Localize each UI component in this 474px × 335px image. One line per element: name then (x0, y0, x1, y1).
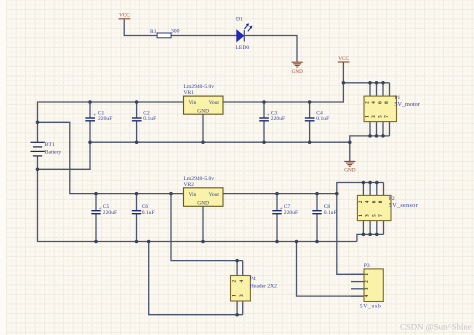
node C2 bottom (135, 140, 139, 144)
capacitor C3 (259, 111, 285, 122)
wire P1 top feed (343, 82, 389, 84)
node VR1 gnd (201, 140, 205, 144)
svg-text:4: 4 (364, 294, 370, 297)
node P3 gnd branch (295, 240, 299, 244)
node C5 top (94, 192, 98, 196)
svg-text:C7: C7 (284, 204, 291, 210)
node P4 pin2 (235, 259, 239, 263)
svg-text:4: 4 (365, 200, 371, 203)
node P1 pin1 (368, 134, 372, 138)
battery BT1 (31, 142, 62, 156)
svg-text:220uF: 220uF (271, 116, 285, 122)
wire P2 pin1 stub (362, 221, 364, 235)
op-amp VR2 regulator Lm2940 (184, 176, 224, 206)
svg-text:5: 5 (378, 115, 384, 118)
node C8 top (315, 192, 319, 196)
wire P2 pin2 stub (362, 183, 364, 196)
svg-text:8: 8 (384, 101, 390, 104)
LED D1 (236, 17, 253, 51)
wire top rail battery+ to VR1 Vin (38, 102, 184, 143)
svg-text:3: 3 (365, 214, 371, 217)
svg-text:220uF: 220uF (98, 116, 112, 122)
wire D1 to GND1 (245, 36, 298, 62)
wire 5V usb drop (337, 194, 364, 275)
svg-text:Header 2X2: Header 2X2 (250, 283, 277, 289)
svg-text:8: 8 (378, 200, 384, 203)
node P2 pin4 (368, 181, 372, 185)
svg-text:3: 3 (364, 287, 370, 290)
node C6 top (135, 192, 139, 196)
node P1 pin2 (368, 81, 372, 85)
node C3 top (262, 100, 266, 104)
svg-text:2: 2 (365, 101, 371, 104)
node C1 bottom (88, 140, 92, 144)
wire C3 leads (263, 102, 265, 142)
svg-text:220uF: 220uF (103, 210, 117, 216)
wire P2 bottom to gnd rail (357, 234, 384, 241)
svg-text:VCC: VCC (338, 56, 349, 62)
svg-text:GND: GND (197, 108, 209, 114)
svg-text:GND: GND (344, 167, 355, 173)
wire P3 pin1 stub (351, 273, 364, 275)
wire R1 to D1 (171, 35, 236, 37)
svg-text:7: 7 (384, 115, 390, 118)
node P1 pin4 (375, 81, 379, 85)
power VCC2 (338, 56, 350, 62)
svg-text:C8: C8 (324, 204, 331, 210)
svg-text:+: + (267, 112, 270, 118)
node C7 top (275, 192, 279, 196)
node P1 pin3 (375, 134, 379, 138)
node P1 pin6 (381, 81, 385, 85)
svg-text:VR1: VR1 (184, 90, 195, 96)
wire P4 pin3 stub (242, 301, 244, 315)
wire VR1 Vout rail (223, 83, 343, 102)
svg-text:4: 4 (371, 101, 377, 104)
svg-text:5V_motor: 5V_motor (394, 101, 419, 108)
svg-text:0.1uF: 0.1uF (316, 116, 329, 122)
svg-text:P3: P3 (364, 263, 370, 269)
svg-text:Battery: Battery (45, 150, 62, 156)
capacitor C8 (312, 204, 336, 216)
svg-text:1: 1 (364, 273, 370, 276)
svg-text:Vin: Vin (189, 100, 197, 106)
node P2 pin2 (362, 181, 366, 185)
svg-text:0.1uF: 0.1uF (143, 116, 156, 122)
wire VR1 GND pin (202, 114, 204, 142)
svg-text:1: 1 (358, 214, 364, 217)
node C8 bottom (315, 240, 319, 244)
wire gnd rail upper section (90, 141, 350, 143)
svg-text:1: 1 (231, 294, 237, 297)
svg-text:+: + (93, 112, 96, 118)
wire VCC2 drop (342, 62, 344, 83)
node P2 pin6 (375, 181, 379, 185)
capacitor C2 (132, 111, 156, 122)
wire P2 pin6 stub (376, 183, 378, 196)
svg-text:7: 7 (378, 214, 384, 217)
svg-text:1: 1 (365, 115, 371, 118)
node P4 branch (169, 192, 173, 196)
capacitor C5 (91, 204, 117, 216)
wire C1 leads (89, 102, 91, 142)
svg-text:+: + (99, 206, 102, 212)
wire battery- down to gnd rail (38, 169, 357, 241)
wire P1 pin3 stub (376, 122, 378, 136)
svg-text:3: 3 (239, 294, 245, 297)
node VCC2 join (342, 81, 346, 85)
svg-text:Lm2940-5.0v: Lm2940-5.0v (184, 176, 215, 182)
node battery minus (36, 168, 40, 172)
wire P4 pin1 stub (236, 301, 238, 315)
wire P2 pin8 stub (383, 183, 385, 196)
node C2 top (135, 100, 139, 104)
wire battery- up to cap gnd rail (38, 142, 91, 169)
node gnd stem (348, 140, 352, 144)
node P2 pin3 (368, 233, 372, 237)
wire VR2 GND pin (202, 206, 204, 241)
svg-text:P4: P4 (250, 276, 256, 282)
node 5V riser (335, 192, 339, 196)
wire C5 leads (95, 194, 97, 242)
node P4 gnd branch (147, 240, 151, 244)
connector P2 (357, 195, 418, 220)
svg-text:0.1uF: 0.1uF (142, 210, 155, 216)
svg-text:D1: D1 (236, 17, 243, 23)
node P1 pin5 (381, 134, 385, 138)
capacitor C7 (272, 204, 298, 216)
wire P2 pin5 stub (376, 221, 378, 235)
node C1 top (88, 100, 92, 104)
svg-text:Lm2940-5.0v: Lm2940-5.0v (184, 84, 215, 90)
node C5 bottom (94, 240, 98, 244)
capacitor C4 (305, 111, 329, 122)
wire P1 pin7 stub (389, 122, 391, 136)
wire P4 pin2 stub (236, 261, 238, 276)
node C3 bottom (262, 140, 266, 144)
wire P1 pin8 stub (389, 83, 391, 96)
wire battery+ branch to VR2 Vin (38, 122, 184, 193)
wire P1 pin4 stub (376, 83, 378, 96)
svg-text:4: 4 (239, 279, 245, 282)
svg-text:Vout: Vout (209, 192, 220, 198)
connector P1 (364, 95, 420, 122)
svg-text:5V_usb: 5V_usb (360, 304, 382, 310)
wire C8 leads (316, 194, 318, 242)
svg-text:GND: GND (292, 69, 303, 75)
node C4 top (308, 100, 312, 104)
wire VCC1 to R1 (124, 20, 157, 36)
node battery branch (36, 121, 40, 125)
svg-text:Vout: Vout (209, 100, 220, 106)
svg-text:220uF: 220uF (284, 210, 298, 216)
wire P2 pin7 stub (383, 221, 385, 235)
svg-text:R1: R1 (150, 29, 157, 35)
svg-text:CSDN @Sun^Shine: CSDN @Sun^Shine (400, 322, 472, 332)
wire P3 pin4 stub (351, 295, 364, 297)
wire P1 bottom to GND2 (350, 136, 390, 161)
svg-text:Vin: Vin (189, 192, 197, 198)
op-amp VR1 regulator Lm2940 (184, 84, 224, 115)
wire P2 pin4 stub (369, 183, 371, 196)
wire C7 leads (276, 194, 278, 242)
svg-text:3: 3 (371, 115, 377, 118)
wire P3 pin2 stub (351, 281, 364, 283)
wire C2 leads (136, 102, 138, 142)
svg-text:5: 5 (371, 214, 377, 217)
svg-text:GND: GND (197, 200, 209, 206)
svg-text:C6: C6 (142, 204, 149, 210)
capacitor C6 (132, 204, 155, 216)
wire P4 bottom to gnd rail (149, 242, 243, 315)
svg-text:LED0: LED0 (236, 45, 250, 51)
wire P1 pin2 stub (369, 83, 371, 96)
resistor R1 (150, 29, 180, 38)
svg-text:BT1: BT1 (45, 142, 55, 148)
svg-text:0.1uF: 0.1uF (324, 210, 337, 216)
svg-text:2: 2 (231, 279, 237, 282)
wire P1 pin1 stub (369, 122, 371, 136)
wire P1 pin5 stub (382, 122, 384, 136)
svg-text:6: 6 (378, 101, 384, 104)
wire P4 top feed (171, 194, 243, 261)
connector P4 (231, 276, 278, 302)
ground GND1 (292, 62, 304, 75)
wire VR2 Vout rail (223, 193, 337, 195)
capacitor C1 (85, 111, 112, 122)
wire battery- lead (37, 157, 39, 170)
wire 5V sensor riser (337, 183, 384, 194)
node P2 pin1 (362, 233, 366, 237)
node VR2 gnd (201, 240, 205, 244)
node P2 pin5 (375, 233, 379, 237)
svg-text:2: 2 (358, 200, 364, 203)
wire P4 pin4 stub (242, 261, 244, 276)
ground GND2 (344, 161, 356, 173)
wire C6 leads (136, 194, 138, 242)
svg-text:6: 6 (371, 200, 377, 203)
wire P1 pin6 stub (382, 83, 384, 96)
svg-text:VCC: VCC (119, 12, 130, 18)
svg-text:300: 300 (171, 29, 180, 35)
wire P3 pin3 stub (351, 288, 364, 290)
node P4 pin1 (235, 313, 239, 317)
wire C4 leads (309, 102, 311, 142)
node C7 bottom (275, 240, 279, 244)
svg-text:+: + (280, 206, 283, 212)
node C6 bottom (135, 240, 139, 244)
connector P3 (360, 263, 384, 310)
svg-text:5V_sensor: 5V_sensor (389, 202, 418, 209)
wire P2 pin3 stub (369, 221, 371, 235)
power VCC1 (119, 12, 131, 18)
svg-text:2: 2 (364, 280, 370, 283)
node C4 bottom (308, 140, 312, 144)
wire gnd to P3 pin4 (297, 242, 365, 297)
svg-text:C5: C5 (103, 204, 110, 210)
